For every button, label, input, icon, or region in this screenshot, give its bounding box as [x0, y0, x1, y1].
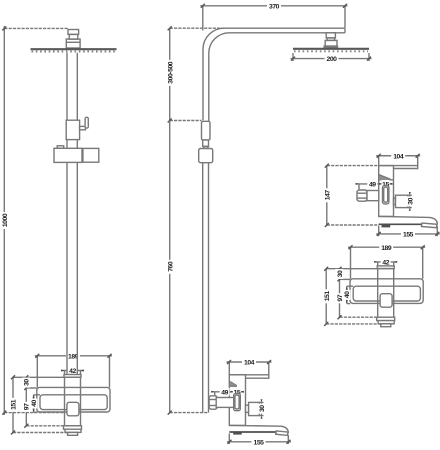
hand shower holder [83, 148, 99, 162]
dim 15 text (side) [233, 388, 241, 397]
dim 151 text (detail) [322, 289, 331, 303]
dim 104 text (side) [242, 358, 256, 367]
riser pipe mid segment [67, 140, 77, 149]
svg-text:200: 200 [327, 56, 338, 63]
dim 42 text [68, 367, 78, 376]
svg-text:49: 49 [369, 182, 376, 189]
spout tip lip (side) [276, 431, 288, 436]
riser pipe upper segment [67, 53, 77, 120]
dim 370 [200, 4, 347, 31]
dim 30 text (detail) [335, 269, 344, 279]
svg-text:104: 104 [393, 153, 404, 160]
mixer body (front) [65, 377, 81, 426]
dim 40 text (detail) [343, 290, 352, 300]
dim 49 (side) [211, 391, 234, 396]
outlet neck (side) [246, 405, 249, 412]
svg-text:189: 189 [381, 245, 392, 252]
dim 42 text (detail) [381, 258, 391, 267]
dim 97 text (detail) [335, 293, 344, 303]
svg-text:155: 155 [403, 232, 414, 239]
svg-text:1000: 1000 [2, 213, 9, 227]
slider block (side) [202, 121, 211, 140]
wall bar (side) [229, 375, 268, 378]
lever arm (side) [216, 398, 234, 408]
bath spout (side) [229, 425, 288, 433]
dim 104 (detail) [376, 154, 420, 166]
svg-text:147: 147 [324, 190, 331, 201]
mixer body (detail) [379, 166, 394, 217]
dim 189 text [66, 352, 80, 361]
rain shower head plate [31, 48, 117, 50]
dim 42 [61, 370, 84, 375]
svg-text:104: 104 [244, 360, 255, 367]
dim 200 [291, 53, 372, 61]
rain head nozzles (side) [294, 50, 368, 52]
svg-text:30: 30 [24, 379, 31, 386]
dim 15 (side) [234, 391, 244, 394]
dim 104 (side) [227, 360, 272, 375]
rain head spray nozzles [32, 51, 117, 53]
svg-text:30: 30 [337, 270, 344, 277]
svg-text:30: 30 [407, 197, 414, 204]
mixer top cap (detail) [377, 266, 394, 269]
dim 15 (detail) [383, 183, 393, 186]
dim 155 (detail) [376, 226, 440, 237]
spout tip lip (detail) [421, 223, 437, 228]
dim 30 outlet (side) [259, 399, 263, 419]
shower arm end [344, 28, 346, 33]
dim 49 (detail) [356, 183, 383, 190]
holder connector (side) [204, 146, 208, 148]
shower head top connector [66, 30, 80, 49]
svg-text:155: 155 [254, 439, 265, 446]
bath spout (detail) [379, 216, 438, 224]
dim 40 (detail) [346, 286, 353, 303]
dim 300-500 [168, 26, 224, 122]
mixer body (side) [229, 375, 245, 426]
dim 155 (side) [227, 434, 291, 445]
dim 49 text (detail) [367, 180, 377, 189]
dim 30 and 97 chain (detail) [338, 267, 377, 320]
bottom tab (detail) [381, 324, 391, 327]
dim 30 outlet text (side) [258, 404, 267, 414]
svg-text:40: 40 [344, 291, 351, 298]
bottom cap step (detail) [378, 321, 394, 324]
dim 97 text [22, 402, 31, 412]
hand shower outlet (detail) [396, 195, 408, 207]
dim 40 [33, 395, 40, 412]
riser pipe lower segment [67, 162, 77, 374]
shower arm outer edge [203, 28, 345, 120]
lever knob (side) [209, 396, 217, 409]
spout slot inner (detail) [353, 286, 420, 301]
aerator (detail) [382, 225, 391, 228]
mixer handle [67, 402, 79, 416]
svg-text:40: 40 [31, 400, 38, 407]
dim 30 outlet (detail) [408, 192, 412, 211]
shower arm inner edge [209, 33, 345, 122]
dim 30 and 97 chain line [24, 375, 63, 428]
cone hatch [230, 382, 237, 387]
slider lock tab [57, 146, 64, 149]
svg-text:30: 30 [259, 405, 266, 412]
dim 151 text [9, 398, 18, 412]
svg-text:151: 151 [324, 291, 331, 302]
hand shower outlet (side) [249, 402, 260, 415]
wall bar (detail) [379, 166, 418, 169]
dim 30 text [22, 378, 31, 388]
cartridge (detail) [383, 186, 389, 204]
dim 189 text (detail) [379, 243, 393, 252]
aerator (side) [233, 432, 242, 435]
svg-text:760: 760 [168, 261, 175, 272]
diverter block [66, 120, 79, 139]
svg-text:49: 49 [221, 389, 228, 396]
dim 147 [325, 164, 379, 227]
mixer top cap [64, 375, 81, 378]
mixer handle (detail) [380, 294, 392, 308]
dim 370 text [267, 2, 281, 11]
bottom cap step [65, 429, 81, 432]
dim 42 (detail) [374, 261, 397, 266]
dim 104 text (detail) [391, 152, 405, 161]
slider block [54, 148, 82, 162]
dim 300-500 text [166, 60, 175, 86]
slider neck (side) [203, 140, 209, 146]
riser pipe (side) [203, 163, 209, 413]
dim 151 [11, 375, 68, 434]
dim 760 [168, 121, 208, 415]
dim 200 text [325, 55, 339, 64]
dim 49 text (side) [220, 388, 230, 397]
cone hatch (detail) [379, 175, 390, 180]
lever knob (detail) [357, 190, 367, 201]
bottom tab [68, 432, 78, 435]
dim 151 (detail) [324, 267, 381, 326]
mixer body front (detail) [378, 269, 394, 318]
head connector stem (side) [324, 33, 337, 48]
holder knob (side) [199, 149, 213, 163]
bottom cap (detail) [377, 317, 395, 320]
svg-text:370: 370 [269, 3, 280, 10]
svg-text:151: 151 [11, 399, 18, 410]
lever arm (detail) [367, 191, 379, 201]
dim 40 text [29, 399, 38, 409]
dim 1000 text [1, 212, 10, 229]
spout band outer [37, 387, 110, 412]
dim 147 text [323, 188, 332, 202]
dim 30 outlet text (detail) [406, 196, 415, 206]
dim 189 (detail) [348, 245, 425, 279]
dim 760 text [166, 260, 175, 274]
bottom cap [64, 426, 82, 429]
dim 155 text (detail) [401, 230, 415, 239]
diverter handle knob [85, 117, 88, 128]
dim 1000 line [2, 26, 68, 415]
svg-text:300-500: 300-500 [167, 61, 174, 83]
dim 15 text (detail) [382, 180, 390, 189]
dim 189 [35, 354, 112, 388]
diverter handle link [80, 126, 86, 129]
spout slot inner [40, 395, 107, 410]
cartridge (side) [234, 393, 241, 410]
outlet neck (detail) [394, 198, 396, 204]
dim 155 text (side) [252, 438, 266, 447]
spout band outer (detail) [350, 279, 423, 304]
rain head plate (side) [293, 48, 369, 50]
